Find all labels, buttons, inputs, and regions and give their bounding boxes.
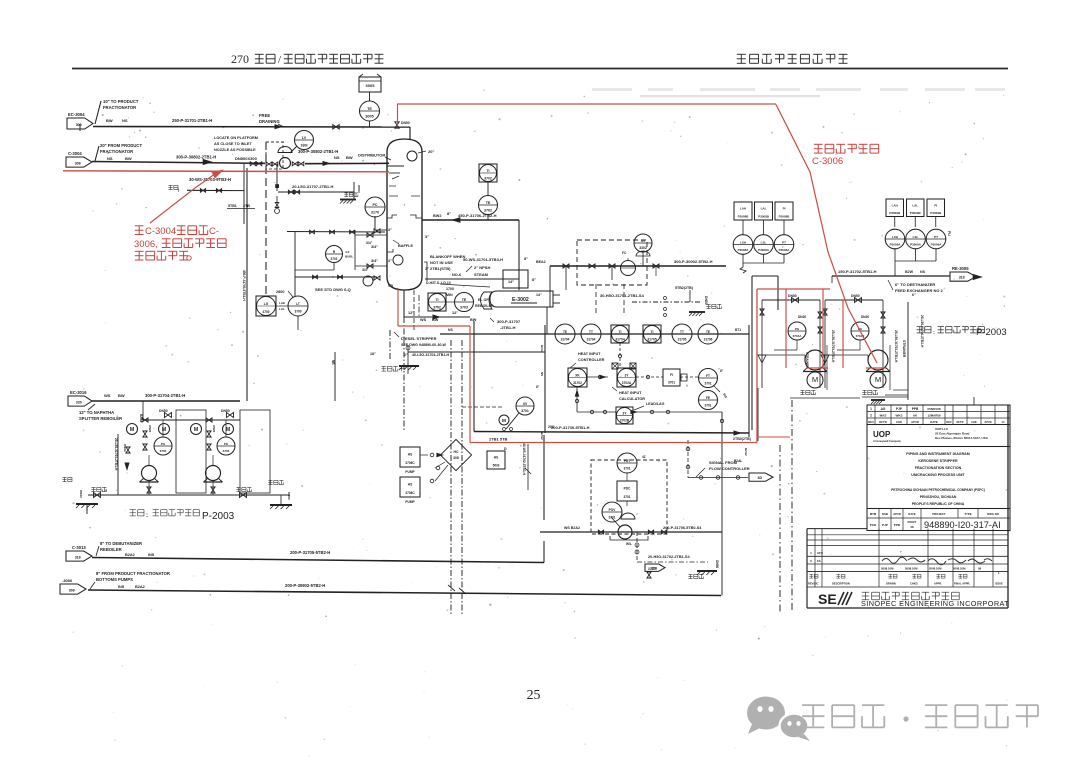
- svg-text:A Honeywell Company: A Honeywell Company: [873, 439, 901, 443]
- svg-text:3006: 3006: [134, 239, 155, 250]
- svg-text:FINAL APPR.: FINAL APPR.: [954, 582, 970, 586]
- svg-text:AFC: AFC: [817, 551, 824, 555]
- svg-text:BAFFLE: BAFFLE: [398, 244, 413, 248]
- svg-text:P3008B: P3008B: [779, 214, 791, 218]
- svg-text:300-P-30802-2TB1-H: 300-P-30802-2TB1-H: [298, 149, 338, 154]
- svg-text:14": 14": [508, 280, 514, 284]
- svg-text:3708C: 3708C: [405, 491, 415, 495]
- svg-text:TE: TE: [367, 107, 372, 111]
- svg-text:450-P-31703-9TB1-H: 450-P-31703-9TB1-H: [242, 270, 246, 301]
- svg-text:318: 318: [959, 276, 965, 280]
- svg-text:STRAINER: STRAINER: [902, 340, 906, 358]
- svg-text:18": 18": [370, 352, 376, 356]
- svg-text:M: M: [226, 427, 230, 433]
- svg-text:PUMP: PUMP: [405, 500, 415, 504]
- svg-text:UOP LLC: UOP LLC: [935, 427, 949, 431]
- svg-text:BOTTOMS PUMPS: BOTTOMS PUMPS: [96, 577, 133, 582]
- svg-text:-2TB1-H: -2TB1-H: [500, 325, 515, 330]
- svg-text:P3008B: P3008B: [738, 214, 750, 218]
- svg-text:FRACTIONATOR: FRACTIONATOR: [100, 149, 133, 154]
- svg-text:8" FROM PRODUCT FRACTIONATOR: 8" FROM PRODUCT FRACTIONATOR: [96, 571, 170, 576]
- svg-text:SINOPEC ENGINEERING INCORPORAT: SINOPEC ENGINEERING INCORPORAT: [861, 599, 1009, 608]
- svg-text:200-P-31706-5TB0-S4: 200-P-31706-5TB0-S4: [663, 526, 702, 530]
- svg-text:P3008A: P3008A: [738, 248, 750, 252]
- svg-text:P-2003: P-2003: [976, 327, 1007, 338]
- svg-text:SEE STD DWG 6-Q: SEE STD DWG 6-Q: [315, 287, 351, 292]
- svg-text:P3009B: P3009B: [889, 211, 901, 215]
- svg-text:LT: LT: [296, 302, 300, 306]
- svg-text:W/L: W/L: [626, 542, 632, 546]
- svg-text:5TB2(2TB): 5TB2(2TB): [675, 286, 694, 290]
- svg-text:RE-3005: RE-3005: [952, 266, 969, 271]
- svg-text:TYPE: TYPE: [964, 512, 971, 516]
- svg-text:25-L50-31703-2TB1-H: 25-L50-31703-2TB1-H: [114, 438, 118, 471]
- svg-text:E-3002: E-3002: [512, 297, 529, 303]
- svg-text:B2W: B2W: [905, 270, 914, 274]
- svg-text:40-WS-31702-5TB3-H: 40-WS-31702-5TB3-H: [522, 443, 526, 476]
- svg-text:B2A2: B2A2: [125, 553, 135, 557]
- svg-text:DESCRIPTION: DESCRIPTION: [832, 582, 850, 586]
- svg-text:FLOW CONTROLLER: FLOW CONTROLLER: [709, 466, 750, 471]
- svg-text:INS: INS: [148, 553, 155, 557]
- svg-text:P3009B: P3009B: [930, 211, 942, 215]
- svg-text:3700: 3700: [262, 310, 269, 314]
- svg-text:3701: 3701: [704, 403, 711, 407]
- svg-text:REBOILER: REBOILER: [100, 547, 122, 552]
- svg-text:SE: SE: [818, 591, 837, 607]
- svg-text:41': 41': [642, 455, 647, 459]
- svg-text:4-0: 4-0: [345, 250, 350, 254]
- svg-text:CHK: CHK: [896, 420, 902, 424]
- svg-text:PDC: PDC: [624, 486, 631, 490]
- svg-text:PG: PG: [795, 327, 800, 331]
- svg-text:B2A2: B2A2: [135, 585, 145, 589]
- svg-text:REV: REV: [868, 420, 874, 424]
- svg-text:31702: 31702: [573, 381, 582, 385]
- svg-text:PETROCHINA SICHUAN PETROCHEMIC: PETROCHINA SICHUAN PETROCHEMICAL COMPANY…: [891, 488, 985, 492]
- svg-text:200: 200: [548, 425, 554, 429]
- svg-text:PPB: PPB: [912, 407, 919, 411]
- svg-text:2TB1 5TB: 2TB1 5TB: [489, 437, 508, 442]
- svg-text:INS: INS: [118, 585, 125, 589]
- svg-text:2: 2: [870, 414, 872, 418]
- svg-text:12": 12": [452, 311, 458, 315]
- svg-text:FRACTIONATION SECTION: FRACTIONATION SECTION: [915, 466, 962, 470]
- svg-text:POV: POV: [609, 508, 617, 512]
- svg-text:8": 8": [532, 278, 536, 282]
- svg-text:3005: 3005: [366, 83, 376, 88]
- svg-text:DN50: DN50: [704, 296, 708, 305]
- svg-text:P3009A: P3009A: [931, 243, 943, 247]
- svg-text:STEAM: STEAM: [474, 272, 489, 277]
- svg-text:REV/SIC: REV/SIC: [808, 582, 819, 586]
- svg-text:308: 308: [75, 161, 81, 165]
- svg-text:NS: NS: [334, 155, 340, 160]
- svg-text:31705: 31705: [678, 338, 687, 342]
- svg-text:M: M: [502, 418, 506, 424]
- svg-text:PT: PT: [934, 235, 938, 239]
- svg-text:8": 8": [524, 257, 528, 261]
- svg-text:DN20: DN20: [148, 425, 152, 433]
- svg-text:NO-6: NO-6: [452, 273, 461, 277]
- svg-text::: :: [933, 330, 935, 336]
- svg-text:C-3004: C-3004: [68, 151, 82, 156]
- svg-text:308: 308: [69, 588, 75, 592]
- svg-text:LSL: LSL: [761, 240, 767, 244]
- svg-text:3700: 3700: [294, 310, 301, 314]
- svg-text:270: 270: [231, 52, 249, 66]
- svg-text:200-P-31730-5TB1-H: 200-P-31730-5TB1-H: [551, 425, 590, 430]
- svg-text:NS: NS: [448, 328, 453, 332]
- svg-text:2": 2": [404, 353, 408, 357]
- svg-text:20": 20": [428, 149, 434, 154]
- svg-text:2008.10M: 2008.10M: [905, 567, 918, 571]
- svg-text:2800: 2800: [276, 290, 284, 294]
- svg-text:P3008A: P3008A: [758, 248, 770, 252]
- svg-text:BW: BW: [118, 393, 125, 398]
- svg-text:BW: BW: [346, 155, 353, 160]
- svg-text:3/4": 3/4": [362, 268, 369, 272]
- svg-text:200-P-30902-5TB2-H: 200-P-30902-5TB2-H: [285, 583, 325, 588]
- svg-text:3005: 3005: [365, 115, 373, 119]
- svg-text:NOZZLE AS POSSIBLE: NOZZLE AS POSSIBLE: [214, 148, 256, 152]
- svg-text:3701: 3701: [668, 380, 675, 384]
- svg-text:20-L5O-31707-2TB1-H: 20-L5O-31707-2TB1-H: [292, 184, 333, 189]
- svg-text:08: 08: [910, 525, 914, 529]
- svg-text:TI: TI: [618, 330, 621, 334]
- svg-text:PJP: PJP: [896, 407, 903, 411]
- svg-text:308: 308: [76, 123, 82, 127]
- svg-text:NS: NS: [920, 270, 926, 274]
- svg-text:LOCATE ON PLATFORM: LOCATE ON PLATFORM: [214, 136, 258, 140]
- svg-text:LAH: LAH: [740, 207, 746, 211]
- svg-text:PCB: PCB: [870, 523, 877, 527]
- svg-text:DN50: DN50: [851, 294, 860, 298]
- svg-text:D: D: [504, 447, 507, 451]
- svg-text:C-3006: C-3006: [812, 156, 843, 167]
- svg-text:BT1: BT1: [735, 328, 741, 332]
- svg-text:DN50: DN50: [401, 121, 410, 125]
- svg-text:25: 25: [527, 687, 541, 702]
- svg-text:3701: 3701: [623, 495, 630, 499]
- svg-text:TT: TT: [680, 330, 684, 334]
- svg-text:DRAWN: DRAWN: [886, 582, 896, 586]
- svg-text::: :: [146, 513, 148, 519]
- svg-text:12MAR09: 12MAR09: [927, 414, 940, 418]
- svg-text:M: M: [812, 375, 818, 384]
- svg-text:DN20: DN20: [123, 444, 127, 452]
- svg-text:20-H5O-31702-2TB1-S4: 20-H5O-31702-2TB1-S4: [648, 555, 690, 559]
- svg-text:NS: NS: [540, 372, 544, 376]
- svg-text:8": 8": [536, 385, 540, 389]
- svg-text:PENGZHOU, SICHUAN: PENGZHOU, SICHUAN: [920, 495, 957, 499]
- svg-text:DN50: DN50: [715, 560, 719, 568]
- svg-text:300-P-30002-5TB2-H: 300-P-30002-5TB2-H: [674, 259, 713, 264]
- svg-text:3702: 3702: [484, 208, 492, 212]
- svg-text:2008.10M: 2008.10M: [881, 567, 894, 571]
- svg-text:12": 12": [408, 311, 414, 315]
- svg-text:XV: XV: [641, 239, 646, 243]
- svg-text:3": 3": [425, 234, 429, 239]
- svg-text:8" TO DEBUTANIZER: 8" TO DEBUTANIZER: [100, 541, 142, 546]
- svg-text:REV: REV: [946, 420, 952, 424]
- svg-text:TI: TI: [435, 298, 438, 302]
- svg-text:3": 3": [388, 228, 392, 232]
- svg-text:TE: TE: [706, 330, 710, 334]
- svg-text:M: M: [130, 427, 134, 433]
- svg-text:LV: LV: [302, 136, 307, 140]
- svg-text:PC: PC: [373, 203, 378, 207]
- svg-text:LAL: LAL: [279, 307, 285, 311]
- svg-text:NS: NS: [107, 156, 113, 161]
- svg-text:3/4": 3/4": [371, 259, 378, 263]
- svg-text:3704A: 3704A: [793, 334, 803, 338]
- svg-text:MTM: MTM: [870, 512, 877, 516]
- svg-text:AG: AG: [881, 407, 886, 411]
- svg-text:948890-I20-317-AI: 948890-I20-317-AI: [924, 520, 1001, 530]
- svg-text:,: ,: [155, 239, 158, 250]
- svg-text:WS B2A2: WS B2A2: [564, 526, 580, 530]
- svg-text:BW: BW: [106, 118, 113, 123]
- svg-text:DN50: DN50: [221, 409, 230, 413]
- svg-text:FT: FT: [706, 374, 710, 378]
- svg-text:300-P-30802-2TB1-H: 300-P-30802-2TB1-H: [176, 155, 216, 160]
- svg-text:330: 330: [76, 400, 82, 404]
- svg-text:FRACTIONATOR: FRACTIONATOR: [103, 105, 136, 110]
- svg-text:PU: PU: [947, 231, 951, 236]
- svg-text:FC: FC: [622, 251, 627, 255]
- svg-text:TI: TI: [650, 330, 653, 334]
- svg-text:10" TO PRODUCT: 10" TO PRODUCT: [103, 99, 139, 104]
- svg-text:30-H5O-31701-2TB1-S4: 30-H5O-31701-2TB1-S4: [600, 293, 645, 298]
- svg-text:XK: XK: [575, 374, 580, 378]
- svg-text:-3006: -3006: [62, 578, 73, 583]
- svg-text:LAL: LAL: [761, 207, 767, 211]
- svg-text:C-3013: C-3013: [72, 545, 86, 550]
- svg-text:6": 6": [912, 293, 916, 297]
- svg-text:150-P-31702-5TB1-H: 150-P-31702-5TB1-H: [838, 269, 877, 274]
- svg-text:PI: PI: [783, 207, 786, 211]
- svg-text:DFTR: DFTR: [879, 420, 886, 424]
- svg-text:3701: 3701: [623, 467, 630, 471]
- svg-text:ISSUE: ISSUE: [995, 582, 1003, 586]
- svg-text:STRAINER: STRAINER: [805, 352, 809, 369]
- svg-text:P3009B: P3009B: [910, 211, 922, 215]
- svg-text:DN50: DN50: [357, 185, 361, 193]
- svg-text:CALCULATOR: CALCULATOR: [619, 397, 645, 401]
- svg-text:25-L50-31703-2TB1-H: 25-L50-31703-2TB1-H: [831, 330, 835, 363]
- svg-text:LG: LG: [264, 302, 269, 306]
- svg-text:31704: 31704: [615, 337, 625, 341]
- svg-text:31705: 31705: [647, 337, 657, 341]
- svg-text:C-3004: C-3004: [145, 226, 176, 237]
- svg-text:EC-3016: EC-3016: [70, 390, 87, 395]
- svg-text:200-P-31705-5TB2-H: 200-P-31705-5TB2-H: [290, 550, 330, 555]
- svg-text:DFTR: DFTR: [957, 420, 964, 424]
- svg-text:TE: TE: [563, 330, 567, 334]
- svg-text:3702: 3702: [484, 176, 492, 180]
- svg-text:2008.10M: 2008.10M: [929, 567, 942, 571]
- svg-text:3702: 3702: [433, 305, 441, 309]
- svg-text:MAS: MAS: [880, 414, 887, 418]
- svg-text:TT: TT: [589, 330, 593, 334]
- svg-text:3702: 3702: [160, 449, 167, 453]
- svg-text:31704: 31704: [587, 338, 596, 342]
- svg-text:FI: FI: [670, 373, 673, 377]
- svg-text:PG: PG: [161, 442, 166, 446]
- svg-text:TE: TE: [462, 298, 467, 302]
- svg-text:08: 08: [978, 567, 982, 571]
- svg-text:FEED EXCHANGER NO 2: FEED EXCHANGER NO 2: [895, 288, 944, 293]
- svg-text:LSH: LSH: [740, 240, 746, 244]
- svg-text:03OCT: 03OCT: [907, 520, 916, 524]
- svg-text:31706: 31706: [704, 338, 713, 342]
- svg-text:LSH: LSH: [892, 235, 898, 239]
- svg-text:DN50: DN50: [788, 294, 797, 298]
- svg-text:BW: BW: [432, 318, 439, 322]
- svg-text:1700: 1700: [446, 287, 454, 291]
- svg-text:3": 3": [388, 259, 392, 263]
- svg-text:2" NPSH: 2" NPSH: [474, 265, 490, 270]
- svg-text:308: 308: [453, 456, 459, 460]
- svg-text:PUMP: PUMP: [405, 470, 415, 474]
- svg-text:3701: 3701: [521, 409, 529, 413]
- svg-text:3706C: 3706C: [405, 461, 415, 465]
- svg-text:DN20: DN20: [861, 315, 869, 319]
- svg-text:WS: WS: [104, 393, 111, 398]
- svg-text:PJP: PJP: [882, 523, 888, 527]
- svg-text:LAH: LAH: [892, 203, 898, 207]
- svg-text:3302: 3302: [639, 246, 647, 250]
- svg-text:LAE: LAE: [279, 301, 285, 305]
- svg-text:PEOPLE'S REPUBLIC OF CHINA: PEOPLE'S REPUBLIC OF CHINA: [912, 502, 965, 506]
- svg-text:B2A2: B2A2: [744, 448, 748, 456]
- svg-text:BW: BW: [470, 318, 477, 322]
- svg-text:8": 8": [447, 211, 451, 216]
- svg-text:3701: 3701: [330, 257, 337, 261]
- svg-text:3703: 3703: [223, 449, 230, 453]
- svg-text:SIGNAL FROM: SIGNAL FROM: [709, 460, 738, 465]
- svg-text:BEA2: BEA2: [536, 260, 546, 264]
- svg-text:25-L50-31703-2TB1-H: 25-L50-31703-2TB1-H: [894, 330, 898, 363]
- svg-text:31704: 31704: [561, 338, 570, 342]
- svg-text:VB: VB: [388, 284, 393, 288]
- svg-text:M: M: [162, 427, 166, 433]
- svg-text:300-P-31704-2TB1-H: 300-P-31704-2TB1-H: [145, 393, 185, 398]
- svg-text:WS: WS: [420, 318, 427, 322]
- svg-text:DWG NO: DWG NO: [987, 512, 1000, 516]
- svg-text:HEAT INPUT: HEAT INPUT: [578, 352, 601, 356]
- svg-text:UNICRACKING PROCESS UNIT: UNICRACKING PROCESS UNIT: [911, 473, 965, 477]
- svg-text:PDT: PDT: [624, 459, 630, 463]
- svg-text:FREE: FREE: [259, 113, 270, 118]
- svg-text:CONTROLLER: CONTROLLER: [578, 358, 605, 362]
- svg-text:BW2: BW2: [433, 214, 441, 218]
- svg-text:EL OF: EL OF: [478, 298, 489, 302]
- svg-text:BW: BW: [125, 156, 132, 161]
- svg-text:HS: HS: [494, 456, 498, 460]
- svg-text:FE: FE: [706, 396, 710, 400]
- svg-text:6" TO DEETHANIZER: 6" TO DEETHANIZER: [895, 282, 935, 287]
- svg-text:2TB1(STB): 2TB1(STB): [430, 266, 451, 271]
- svg-text:HS: HS: [408, 482, 412, 486]
- svg-text:25-L50-31706-2TB1-H: 25-L50-31706-2TB1-H: [920, 315, 924, 348]
- svg-text:2TB0(2TB): 2TB0(2TB): [733, 437, 752, 441]
- svg-text:1: 1: [870, 407, 872, 411]
- svg-text:25 East Algonquin Road: 25 East Algonquin Road: [935, 432, 970, 436]
- svg-text:TI: TI: [486, 169, 489, 173]
- svg-text:DN20: DN20: [798, 315, 806, 319]
- svg-text:250-P-31701-2TB1-H: 250-P-31701-2TB1-H: [172, 118, 212, 123]
- svg-text:P3009A: P3009A: [890, 243, 902, 247]
- svg-text:REBOILER: REBOILER: [475, 304, 494, 308]
- svg-text:BLANKOFF WHEN: BLANKOFF WHEN: [430, 254, 465, 259]
- svg-text:5/N3: 5/N3: [493, 463, 500, 467]
- svg-text:EC-3004: EC-3004: [68, 112, 85, 117]
- svg-text:318: 318: [75, 555, 81, 559]
- svg-text:P3009A: P3009A: [910, 243, 922, 247]
- svg-text:05NOV08: 05NOV08: [927, 407, 941, 411]
- svg-text:3/4": 3/4": [371, 245, 378, 249]
- svg-text:UOP: UOP: [873, 430, 891, 439]
- svg-text:P3008B: P3008B: [758, 214, 770, 218]
- svg-text:M: M: [875, 375, 881, 384]
- svg-text:TE: TE: [486, 201, 491, 205]
- svg-text:LEAD/LAG: LEAD/LAG: [646, 402, 665, 406]
- svg-text:APVD: APVD: [984, 420, 991, 424]
- svg-text:2008.10M: 2008.10M: [953, 567, 966, 571]
- svg-text:WKS: WKS: [896, 414, 903, 418]
- svg-text:NS: NS: [122, 118, 128, 123]
- svg-text:DN50: DN50: [287, 492, 291, 500]
- svg-text:CHK: CHK: [971, 420, 977, 424]
- svg-text:APVD: APVD: [893, 512, 901, 516]
- svg-text:DATE: DATE: [930, 420, 938, 424]
- svg-text:DN20: DN20: [79, 490, 83, 498]
- svg-text:DISTRIBUTOR: DISTRIBUTOR: [358, 153, 385, 158]
- svg-text:3702A: 3702A: [622, 381, 632, 385]
- svg-text:APVD: APVD: [911, 420, 919, 424]
- svg-text:DIESEL STRIPPER: DIESEL STRIPPER: [401, 336, 437, 341]
- svg-text:8": 8": [720, 369, 724, 373]
- svg-text:CHKD.: CHKD.: [910, 582, 918, 586]
- svg-text:3701: 3701: [704, 381, 711, 385]
- svg-text:DN500X300: DN500X300: [235, 156, 258, 161]
- svg-text:APPR.: APPR.: [934, 582, 942, 586]
- svg-text:M: M: [194, 427, 198, 433]
- svg-text:300-P-31707: 300-P-31707: [497, 319, 521, 324]
- svg-text:BUBL: BUBL: [345, 255, 353, 259]
- svg-text:20" FROM PRODUCT: 20" FROM PRODUCT: [100, 143, 142, 148]
- svg-text:3170: 3170: [371, 211, 379, 215]
- svg-text:LSL: LSL: [913, 235, 919, 239]
- svg-text:PIPING AND INSTRUMENT DIAGR: PIPING AND INSTRUMENT DIAGRAM: [906, 452, 970, 456]
- svg-text:DSB: DSB: [882, 512, 888, 516]
- svg-text:PI: PI: [934, 203, 937, 207]
- svg-text:12" TO NAPHTHA: 12" TO NAPHTHA: [79, 410, 114, 415]
- svg-text:DN50: DN50: [159, 409, 168, 413]
- svg-text:HEAT INPUT: HEAT INPUT: [619, 391, 642, 395]
- svg-text:C-: C-: [209, 226, 219, 237]
- svg-text:3D: 3D: [757, 476, 762, 480]
- svg-text:DRAINING: DRAINING: [259, 119, 280, 124]
- svg-text:450-P-31706-2TB2-H: 450-P-31706-2TB2-H: [458, 213, 497, 218]
- svg-text:MIN: MIN: [446, 293, 453, 297]
- svg-text:AS CLOSE TO INLET: AS CLOSE TO INLET: [214, 142, 252, 146]
- svg-text:3/4": 3/4": [366, 241, 373, 245]
- svg-text:PT: PT: [782, 240, 786, 244]
- svg-text:P-2003: P-2003: [202, 511, 235, 522]
